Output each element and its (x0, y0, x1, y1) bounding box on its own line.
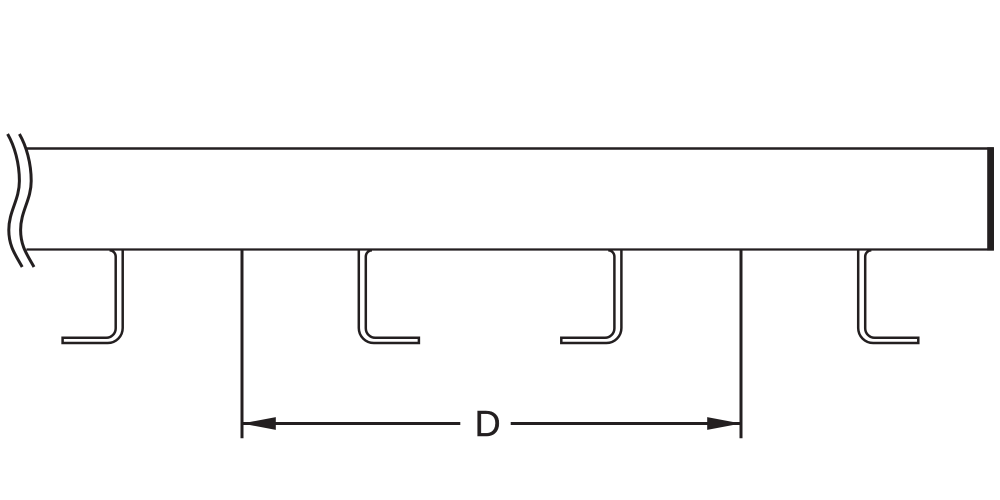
hook bracket 1 (foot left) (63, 250, 123, 344)
extension line right (740, 250, 743, 439)
arrowhead left (242, 417, 276, 430)
break line left outer (8, 134, 23, 267)
rail top edge (26, 147, 994, 150)
dimension line right segment (511, 422, 741, 425)
arrowhead right (707, 417, 741, 430)
hook bracket 2 (foot right) (359, 250, 419, 344)
extension line left (241, 250, 244, 439)
svg-text:D: D (475, 403, 501, 444)
hook bracket 4 (foot right) (858, 250, 918, 344)
dimension line left segment (242, 422, 460, 425)
rail right end cap (987, 147, 994, 250)
hook bracket 3 (foot left) (561, 250, 621, 344)
break line left inner (19, 134, 34, 267)
rail bottom edge (27, 248, 994, 250)
